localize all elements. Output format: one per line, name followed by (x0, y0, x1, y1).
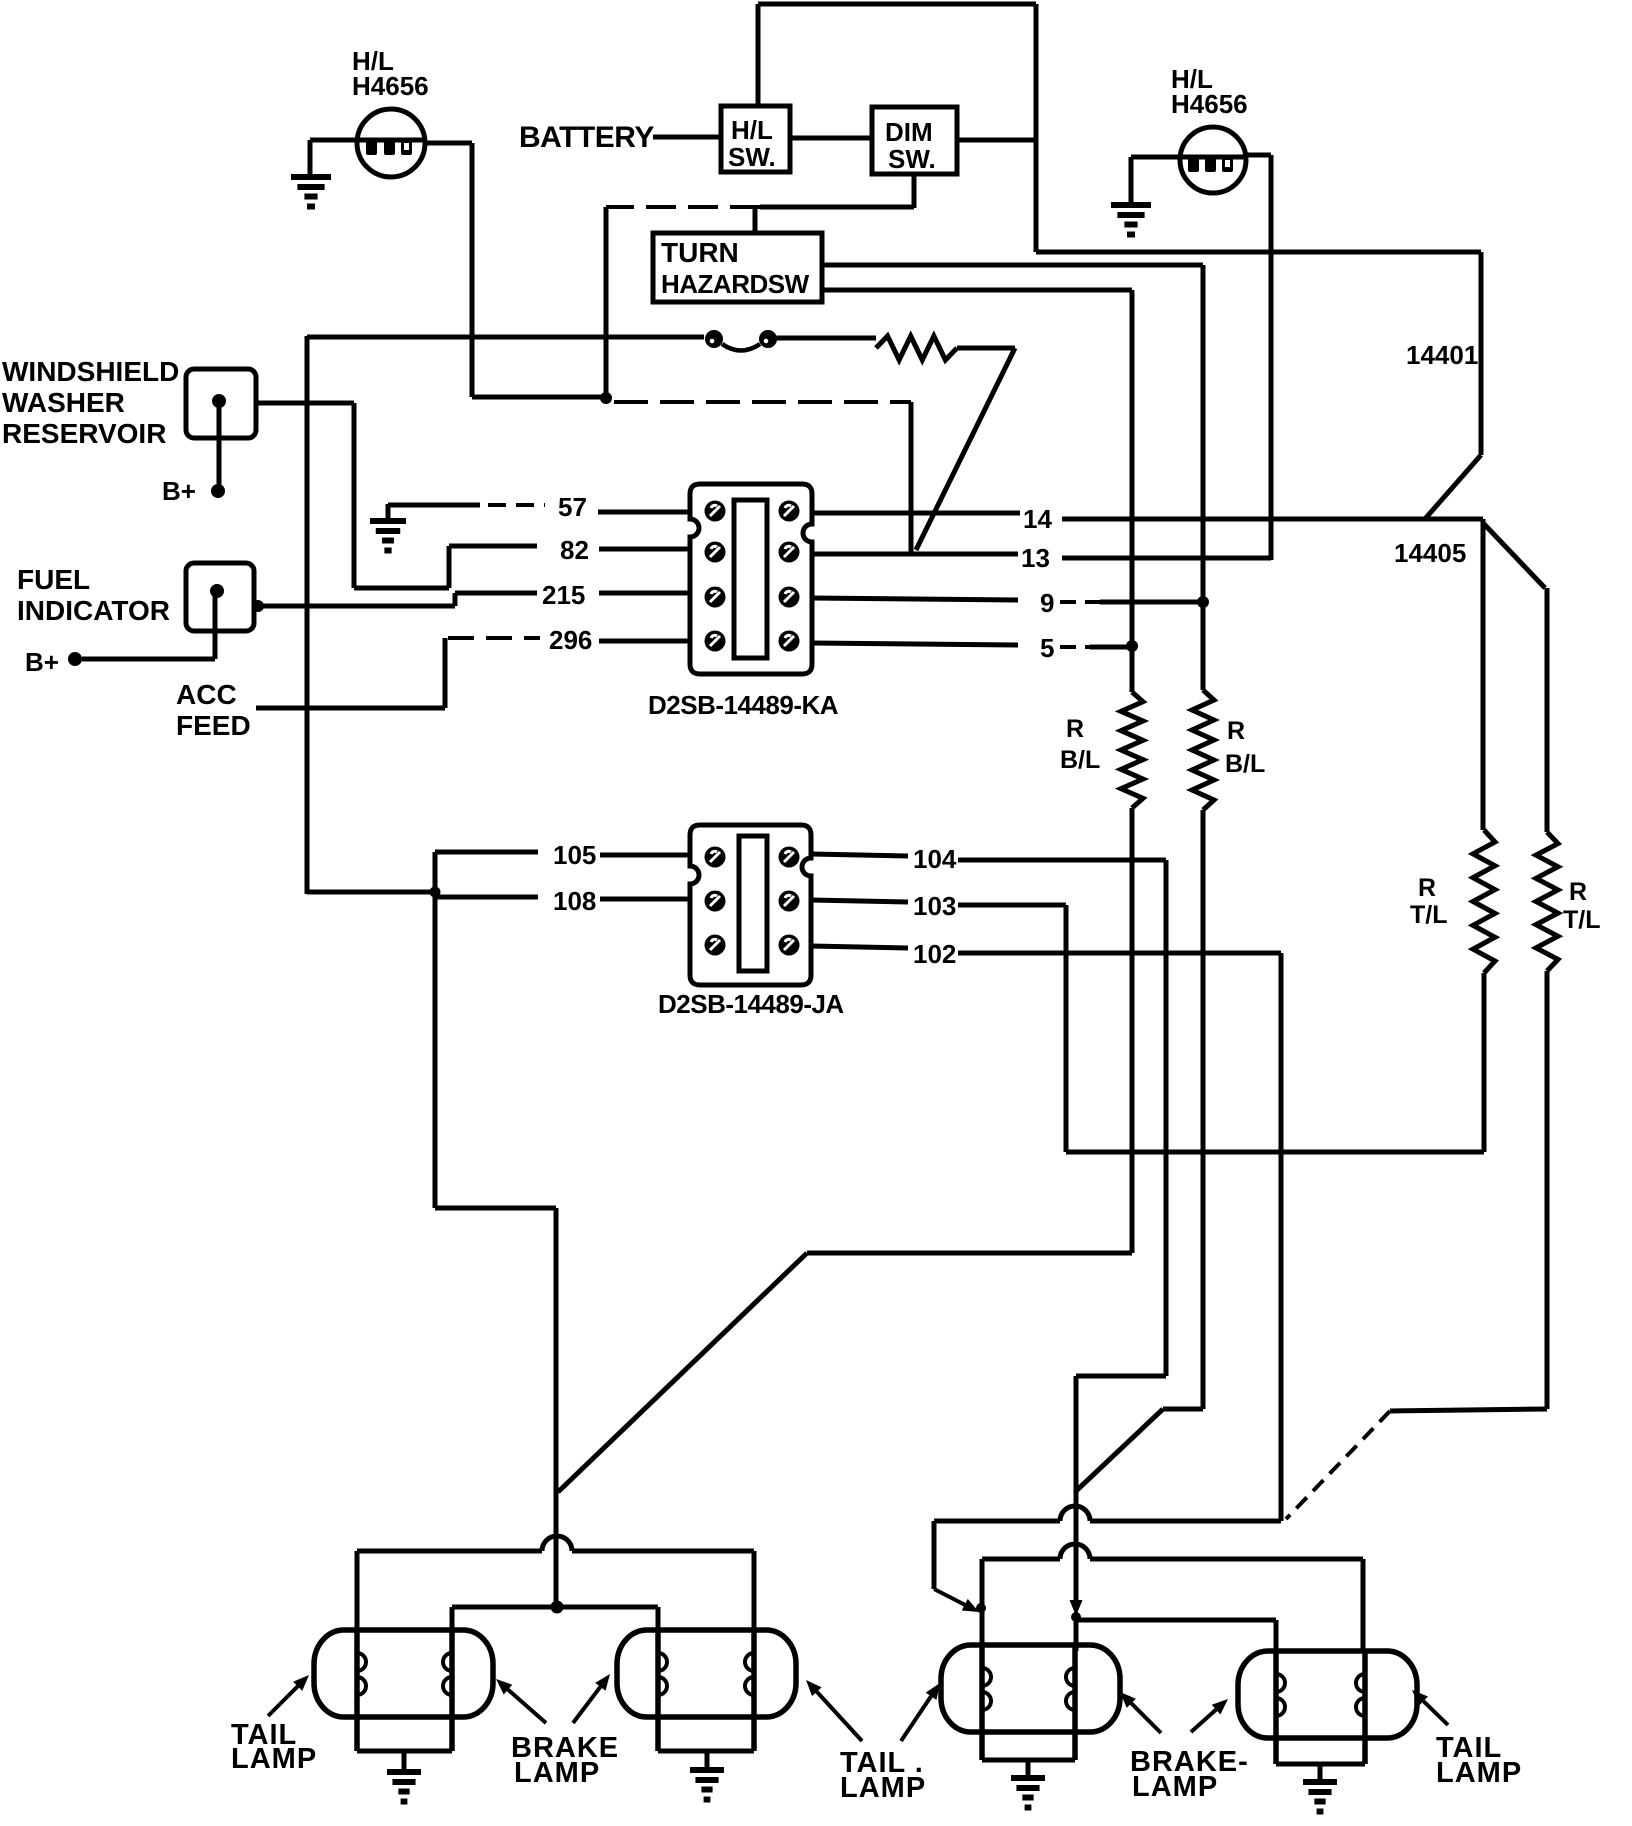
headlamp H/L H4656 right (1180, 127, 1246, 193)
svg-text:D2SB-14489-JA: D2SB-14489-JA (658, 989, 844, 1019)
svg-text:T/L: T/L (1410, 901, 1448, 929)
pin JA right row 2 (779, 891, 800, 912)
wire 296 to connector (599, 639, 691, 644)
wire right brake feed jog (1076, 1374, 1166, 1379)
wire turn output A horizontal (822, 263, 1203, 268)
wire 82 to connector (599, 547, 691, 552)
node 105 junction (430, 887, 441, 898)
arrow tail middle b (901, 1696, 931, 1741)
wire 104 from connector (811, 854, 908, 856)
svg-text:H/L: H/L (731, 115, 773, 145)
wire 5 to junction (1060, 645, 1090, 649)
wire battery harness top (758, 2, 1036, 7)
svg-text:R: R (1227, 717, 1245, 745)
fuse (705, 330, 723, 348)
wire right headlamp right (1246, 153, 1271, 158)
svg-text:DIM: DIM (885, 117, 933, 147)
lamp tail-brake 3 body (941, 1645, 1120, 1732)
svg-text:H4656: H4656 (1171, 89, 1248, 119)
pin JA left row 3 (705, 935, 726, 956)
svg-text:B/L: B/L (1060, 746, 1100, 774)
svg-text:LAMP: LAMP (840, 1772, 926, 1804)
wire diagonal to 13 (916, 348, 1015, 550)
wire dash-dot to 13 vertical (614, 400, 911, 404)
wire 14 from connector (811, 511, 1020, 516)
wire 103 from connector (811, 900, 908, 902)
svg-text:108: 108 (553, 886, 596, 916)
pin KA left row 4 (705, 631, 726, 652)
svg-text:215: 215 (542, 580, 585, 610)
lamp tail-brake 4 body (1238, 1651, 1417, 1738)
ground 57 (386, 504, 391, 521)
svg-text:LAMP: LAMP (231, 1743, 317, 1775)
pin JA right row 3 (779, 935, 800, 956)
wire R B/L right lower (1201, 810, 1206, 1409)
svg-text:103: 103 (913, 891, 956, 921)
arrow tail middle a (817, 1692, 862, 1741)
wire R T/L right corner (1390, 1409, 1547, 1411)
svg-text:57: 57 (558, 492, 587, 522)
wire washer B+ (217, 401, 222, 487)
svg-text:296: 296 (549, 625, 592, 655)
node 5 junction (1126, 640, 1138, 652)
wire 14401 diagonal to 14 wire (1424, 455, 1481, 520)
svg-text:SW.: SW. (728, 142, 776, 172)
node 9 junction (1197, 596, 1209, 608)
fuel indicator box (186, 563, 254, 631)
switch TURN HAZARD SW box (653, 233, 822, 302)
arrow 102 to lamp3 post (934, 1589, 965, 1605)
svg-text:D2SB-14489-KA: D2SB-14489-KA (648, 690, 839, 720)
wire left headlamp right (425, 141, 472, 146)
wire TURN box top stub (753, 207, 758, 233)
node dimmer junction (600, 392, 612, 404)
wire turn output B horizontal (822, 288, 1132, 293)
node left brake junction (551, 1601, 564, 1614)
ground right headlamp (1111, 202, 1151, 208)
resistor R T/L left (1473, 830, 1495, 973)
wire 296 dashes (448, 636, 540, 640)
svg-text:HAZARDSW: HAZARDSW (661, 269, 810, 299)
svg-text:82: 82 (560, 535, 589, 565)
svg-text:SW.: SW. (888, 144, 936, 174)
wire 105 riser (433, 852, 438, 1208)
connector D2SB-14489-JA body (690, 825, 811, 985)
wire 102 tail feed (934, 1521, 1281, 1589)
ground lamp3 (1026, 1760, 1031, 1778)
node washer terminal (212, 394, 226, 408)
svg-text:14405: 14405 (1394, 538, 1466, 568)
wire fuel B+ (82, 657, 215, 662)
wire 9 from connector (811, 598, 1018, 600)
pin KA left row 2 (705, 542, 726, 563)
svg-text:TURN: TURN (661, 237, 739, 268)
wire trunk left (305, 336, 310, 894)
wire R T/L right upper (1545, 588, 1550, 832)
svg-text:104: 104 (913, 844, 957, 874)
wire washer to 82 path (256, 401, 354, 406)
post lamp1 right (449, 1630, 455, 1751)
arrow tail lamp left (268, 1686, 298, 1716)
wire 9 to junction (1060, 600, 1100, 604)
wire fuel to 215 path (254, 604, 455, 609)
wire R B/L right to lamp (1163, 1407, 1203, 1412)
node B+ fuel (68, 652, 82, 666)
svg-text:RESERVOIR: RESERVOIR (2, 418, 166, 449)
wire 215 to connector (599, 591, 691, 596)
lamp tail-brake 2 body (617, 1630, 796, 1717)
post lamp4 right (1362, 1651, 1368, 1764)
wire main feed left (307, 335, 704, 340)
svg-text:INDICATOR: INDICATOR (17, 595, 170, 626)
svg-text:9: 9 (1040, 588, 1054, 618)
wire lamp3 base (982, 1758, 1075, 1763)
switch H/L SW box (721, 106, 790, 172)
wire acc feed (256, 706, 445, 711)
post lamp3 right (1072, 1645, 1078, 1760)
pin KA right row 2 (779, 542, 800, 563)
wire H/L SW to DIM SW (790, 136, 872, 141)
svg-text:B/L: B/L (1225, 750, 1265, 778)
wire 103 to right (958, 903, 1066, 908)
wire 102 from connector (811, 946, 908, 948)
post lamp2 right (751, 1630, 757, 1751)
windshield washer reservoir box (186, 369, 256, 438)
wire 5 from connector (811, 643, 1018, 645)
svg-text:5: 5 (1040, 633, 1054, 663)
wire resistor to diagonal (957, 346, 1015, 351)
svg-text:BATTERY: BATTERY (519, 121, 654, 154)
wire 108 to connector (600, 897, 691, 902)
resistor R B/L left (1121, 692, 1143, 808)
pin JA left row 2 (705, 891, 726, 912)
wire 104 to right (958, 858, 1166, 863)
post lamp3 left (979, 1645, 985, 1760)
wire left tail lamp bus (357, 1551, 754, 1630)
wire 14401 vertical (1479, 252, 1484, 455)
wire dash-dot dimmer line (760, 205, 914, 210)
connector KA key slot (734, 500, 767, 658)
wire lamp1 base (357, 1749, 452, 1754)
wire lamp4 base (1276, 1762, 1365, 1767)
pin JA left row 1 (705, 847, 726, 868)
connector JA key slot (739, 836, 767, 971)
post lamp1 left (354, 1630, 360, 1751)
wire left brake lamp bus (452, 1607, 658, 1630)
svg-text:WINDSHIELD: WINDSHIELD (2, 356, 179, 387)
svg-text:LAMP: LAMP (1132, 1771, 1218, 1803)
wire battery to H/L SW (653, 135, 721, 140)
pin KA left row 1 (705, 501, 726, 522)
ground lamp2 (705, 1751, 710, 1770)
wire lamp2 base (658, 1749, 754, 1754)
svg-text:ACC: ACC (176, 679, 237, 710)
resistor R T/L right (1536, 832, 1558, 971)
wire 105 to connector (600, 853, 691, 858)
arrow brake right b (1191, 1710, 1216, 1732)
post lamp4 left (1273, 1651, 1279, 1764)
wire right brake branch (1076, 1614, 1276, 1651)
svg-text:FEED: FEED (176, 710, 251, 741)
wire 57 to connector (598, 510, 691, 515)
svg-text:14401: 14401 (1406, 340, 1478, 370)
wire DIM SW bottom stub (912, 174, 917, 208)
pin JA right row 1 (779, 847, 800, 868)
arrow brake feed lamp3 (1074, 1575, 1078, 1600)
wire right headlamp to ground (1131, 155, 1181, 160)
wire 14 to harness (1062, 517, 1483, 522)
headlamp H/L H4656 left (357, 109, 425, 177)
pin KA left row 3 (705, 587, 726, 608)
svg-text:WASHER: WASHER (2, 387, 125, 418)
wire dimmer stub vertical (604, 207, 609, 398)
wire left headlamp to ground (310, 138, 357, 143)
wire 57 from ground (388, 503, 480, 508)
pin KA right row 1 (779, 501, 800, 522)
filaments right headlamp (1181, 155, 1245, 160)
wire 102 to right (958, 951, 1281, 956)
svg-text:LAMP: LAMP (1436, 1757, 1522, 1789)
wire right tail lamp bus (982, 1559, 1363, 1651)
arrow brake left b (573, 1687, 600, 1723)
svg-text:R: R (1569, 878, 1587, 906)
wire 105 horizontal (435, 850, 538, 855)
wire H/L SW to top (756, 4, 761, 106)
wire R B/L left to lamp (807, 1251, 1132, 1256)
wire R T/L left to 103 (1066, 1150, 1484, 1155)
svg-text:14: 14 (1023, 504, 1052, 534)
wire turn output A vertical (1201, 265, 1206, 690)
arrow brake left a (508, 1690, 546, 1723)
wire R T/L right dash diagonal (1286, 1411, 1390, 1519)
wire left brake feed (435, 1206, 556, 1211)
wire 14401 horizontal (1036, 250, 1481, 255)
node B+ washer (211, 484, 225, 498)
svg-text:H4656: H4656 (352, 71, 429, 101)
ground left headlamp (291, 174, 331, 180)
svg-text:105: 105 (553, 840, 596, 870)
wire R T/L left lower (1482, 973, 1487, 1152)
filaments left headlamp (358, 138, 424, 143)
wire DIM SW to right trunk (957, 138, 1036, 143)
wire 14 branch down left (1481, 519, 1486, 830)
wire R T/L right lower (1545, 971, 1550, 1409)
connector D2SB-14489-KA body (690, 484, 812, 674)
wire trunk to JA (307, 890, 435, 895)
wire 108 horizontal (436, 895, 538, 900)
svg-text:R: R (1066, 715, 1084, 743)
resistor R B/L right (1192, 690, 1214, 810)
post lamp2 left (655, 1630, 661, 1751)
wire turn output B vertical (1130, 290, 1135, 692)
ground lamp1 (402, 1751, 407, 1772)
resistor main feed (876, 336, 957, 360)
arrow brake right a (1131, 1703, 1161, 1733)
wire 13 to right headlamp (1062, 556, 1271, 561)
switch DIM SW box (872, 107, 957, 174)
wire 14 branch diagonal (1484, 524, 1545, 588)
pin KA right row 4 (779, 631, 800, 652)
wire 13 from connector (811, 552, 1018, 557)
wire fuse to resistor (776, 336, 876, 341)
wire right trunk vertical 14401 feed (1034, 4, 1039, 252)
svg-text:R: R (1418, 874, 1436, 902)
svg-text:B+: B+ (162, 476, 196, 506)
svg-text:T/L: T/L (1563, 906, 1601, 934)
ground lamp4 (1318, 1764, 1323, 1782)
pin KA right row 3 (779, 587, 800, 608)
lamp tail-brake 1 body (314, 1630, 493, 1717)
svg-text:B+: B+ (25, 647, 59, 677)
svg-text:FUEL: FUEL (17, 564, 90, 595)
node fuel terminal (210, 584, 224, 598)
node fuel output (252, 600, 264, 612)
wire R B/L left lower (1130, 808, 1135, 1253)
svg-text:LAMP: LAMP (514, 1757, 600, 1789)
svg-text:13: 13 (1021, 543, 1050, 573)
svg-text:102: 102 (913, 939, 956, 969)
arrow tail lamp right (1423, 1701, 1448, 1725)
